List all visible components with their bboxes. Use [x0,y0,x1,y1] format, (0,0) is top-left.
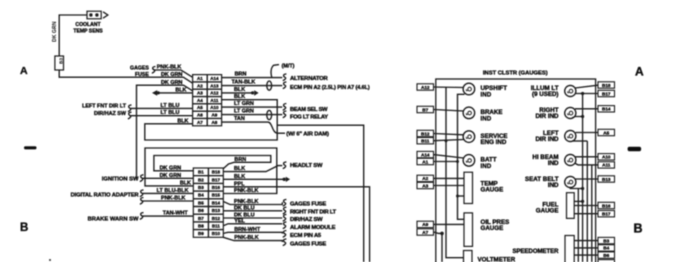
wire LT GRN from A9 to fog lt relay [222,114,283,116]
label FUEL GAUGE [536,201,559,214]
page marker dash (left) [24,146,37,149]
svg-text:B: B [634,222,643,236]
wire A3 tab to temp gauge [434,185,465,187]
wire DK BLU from B12 to dir/haz sw [223,217,282,219]
connector B pin grid (B1-B18) [193,168,223,237]
wire seat belt lamp to B13 tab [576,178,599,180]
svg-text:TAN: TAN [234,116,245,122]
svg-text:B12: B12 [212,216,221,221]
svg-text:(W/ 6" AIR DAM): (W/ 6" AIR DAM) [286,132,329,138]
svg-text:COOLANT: COOLANT [75,22,101,28]
wire BRN loop from B18 to B1 [154,156,271,171]
svg-text:B: B [20,222,28,234]
svg-text:LT BLU-BLK: LT BLU-BLK [157,188,189,194]
svg-text:B6: B6 [603,253,609,258]
svg-text:B11: B11 [421,139,430,144]
splice arrow (right) at B17 BLK wire [283,177,291,182]
wire A7 continues down off page [441,233,443,262]
svg-text:IND: IND [481,91,492,98]
indicator lamp HI BEAM IND [565,154,576,165]
svg-text:B12: B12 [421,131,430,136]
svg-text:B2: B2 [198,177,204,182]
svg-text:A5: A5 [197,105,203,110]
svg-text:A9: A9 [422,222,428,227]
svg-text:A11: A11 [602,163,611,168]
svg-text:BLK: BLK [175,87,186,93]
connector hook ecm pin a5 [283,231,287,238]
wire right dir lamp to B14 tab [575,108,598,110]
label ILLUM LT (9 USED) [531,85,559,98]
internal bus v2 from upshift lamp down to oil pres gauge [458,94,465,219]
wire speedometer to B4 tab [574,247,598,249]
inst clstr left tab A1 [417,158,434,164]
svg-text:A13: A13 [210,83,219,88]
wire A9 tab to oil pres gauge [434,223,465,225]
svg-text:B16: B16 [212,185,221,190]
inline connector oval on A9 wire [267,110,272,119]
splice arrow (right-pointing) on A12 BLK wire [251,90,259,96]
wire DK GRN from coolant sensor [59,15,87,56]
svg-text:B16: B16 [602,203,611,208]
wire TAN-BLK from A13 to ECM [222,85,283,87]
wire A2 tab to temp gauge [434,177,465,179]
svg-text:PNK-BLK: PNK-BLK [157,65,182,71]
wire illum lamp to B17 tab [576,93,599,95]
inline connector oval on TAN-BLK wire [267,81,272,90]
wire left dir lamp lower to v-bus 3 [572,140,587,142]
internal v-bus right 2 [582,94,584,262]
connector hook beam sel sw [283,104,287,111]
svg-text:A9: A9 [212,113,218,118]
svg-text:BLK: BLK [177,118,188,124]
inst clstr right tab B3 [598,237,615,243]
svg-text:IGNITION SW: IGNITION SW [102,176,139,182]
inst clstr right tab A11 [598,162,615,168]
junction dot right dir/v-bus [581,115,584,118]
svg-text:YEL: YEL [234,218,245,224]
svg-text:A1: A1 [422,159,428,164]
connector hook ignition sw [140,175,144,182]
wire TAN from A8 to air dam note [222,122,285,133]
junction dot illum/v-bus [581,92,584,95]
svg-text:BEAM SEL SW: BEAM SEL SW [290,107,328,113]
wire illum lamp to B18 tab [575,85,598,88]
svg-text:A7: A7 [197,120,203,125]
label BRAKE IND [481,109,503,122]
connector hook dir/haz sw [128,112,132,119]
wire BRN-WHT from B10 to ECM pin A5 [223,232,282,233]
inst clstr box [436,79,596,262]
wire v2 branch to temp gauge [458,195,465,197]
temp gauge [464,172,473,203]
inline connector B3 [55,56,65,70]
voltmeter gauge [464,251,473,262]
svg-text:DIR IND: DIR IND [535,136,559,143]
svg-text:A7: A7 [422,230,428,235]
wire A7 tab to junction [434,232,443,233]
wire PNK-BLK to pin A1 [154,70,193,77]
junction dot B11/v1 [445,139,448,142]
svg-text:A8: A8 [212,120,218,125]
svg-text:B3: B3 [198,185,204,190]
connector A pin grid (A1-A14) [193,75,222,126]
label GAGES FUSE (upper) [130,65,149,78]
label TEMP GAUGE [481,180,504,193]
label HI BEAM IND [532,154,559,167]
svg-text:SPEEDOMETER: SPEEDOMETER [512,249,559,255]
wire left dir lamp to A5 tab [576,132,599,134]
inst clstr left tab B11 [417,138,434,144]
inst clstr right tab B17 [598,90,615,96]
label SERVICE ENG IND [481,133,508,146]
svg-text:A1: A1 [197,76,203,81]
internal v-bus right 1 [577,189,579,262]
wire PNK-BLK to pin B5 [142,200,194,202]
svg-text:ALARM MODULE: ALARM MODULE [290,225,336,231]
wire PPL from B16 to lower page [223,187,369,262]
svg-text:A2: A2 [422,176,428,181]
connector hook right fnt dir lt [283,207,287,214]
svg-text:PNK-BLK: PNK-BLK [234,188,259,194]
indicator lamp BRAKE IND [463,107,475,119]
svg-text:HEADLT SW: HEADLT SW [290,163,323,169]
label SEAT BELT IND [525,176,559,189]
wire TAN-WHT to pin B7 [142,215,194,217]
svg-text:B11: B11 [212,223,221,228]
inst clstr left tab A12 [417,84,434,90]
indicator lamp LEFT DIR IND [565,130,576,141]
svg-text:A12: A12 [210,91,219,96]
svg-text:DK GRN: DK GRN [160,173,182,179]
svg-text:B1: B1 [198,170,204,175]
svg-text:DK BLU: DK BLU [234,205,255,211]
wire DK BLU from B13 to right fnt dir lt [223,210,282,212]
svg-text:A12: A12 [421,85,430,90]
svg-text:B18: B18 [212,170,221,175]
wire DK GRN from ignition sw up to pin A3 [137,85,193,178]
connector hook ECM [283,82,287,89]
connector hook dir/haz sw (right) [283,214,287,221]
internal v-bus right 4 [591,165,593,262]
svg-text:PPL: PPL [234,181,245,187]
junction dot fuel/v-bus [581,200,584,203]
page marker dash (right) [628,147,642,151]
svg-text:BLK: BLK [180,180,191,186]
scan artifact dot [49,259,51,261]
wire BLK from A12 with splice arrow [222,92,252,94]
connector hook headlt sw [283,162,287,169]
svg-text:LEFT FNT DIR LT: LEFT FNT DIR LT [82,103,127,109]
svg-text:B3: B3 [59,58,65,64]
wire hi beam lamp to A11 tab [575,163,599,165]
svg-text:BLK: BLK [234,174,245,180]
svg-text:DK GRN: DK GRN [161,72,183,78]
svg-text:LT GRN: LT GRN [234,101,254,107]
wire BLK from B18 to headlt sw [223,166,282,172]
inst clstr right tab B4 [598,245,615,251]
svg-text:DK GRN: DK GRN [161,80,183,86]
wire LT BLU to pin A5 [130,107,193,109]
splice arrow (left-pointing) on BLK wire [152,90,160,96]
svg-text:BRN-WHT: BRN-WHT [234,227,261,233]
svg-text:B10: B10 [212,231,221,236]
indicator lamp RIGHT DIR IND [565,107,576,118]
junction dot v2/temp [456,195,459,198]
inst clstr right tab B5 (cut off) [598,260,615,262]
wire LT GRN from A10 to beam sel sw [222,106,283,108]
svg-text:(9 USED): (9 USED) [532,91,558,98]
wire LT BLU-BLK to pin B4 [142,192,194,194]
svg-text:A14: A14 [421,152,430,157]
inst clstr left tab A14 [417,151,434,157]
speedometer [565,236,574,262]
svg-text:B18: B18 [602,83,611,88]
svg-text:A4: A4 [197,98,203,103]
svg-text:B4: B4 [603,246,609,251]
svg-text:RIGHT FNT DIR LT: RIGHT FNT DIR LT [290,209,337,215]
oil pres gauge [464,213,473,247]
wire speedometer to B6 tab [574,254,598,256]
label RIGHT DIR IND [535,107,559,120]
svg-text:BLK: BLK [234,94,245,100]
inst clstr left tab A2 [417,175,434,181]
svg-text:DK GRN: DK GRN [160,166,182,172]
svg-text:A3: A3 [197,91,203,96]
svg-text:A6: A6 [197,113,203,118]
svg-text:BLK: BLK [234,166,245,172]
wire BRN from A14 to alternator [222,77,283,79]
svg-text:A: A [635,65,644,79]
svg-text:ALTERNATOR: ALTERNATOR [290,76,329,82]
wire PNK-BLK from B10 bottom to gages fuse [223,237,282,242]
svg-text:DIR/HAZ SW: DIR/HAZ SW [290,217,323,223]
svg-text:PNK-BLK: PNK-BLK [234,235,259,241]
wire speedometer to B3 tab [574,240,598,242]
wire BLK from B17 with splice arrow [223,178,283,180]
label UPSHIFT IND [481,85,508,98]
wire BLK loop from B3 to B15 [145,148,277,194]
svg-text:DK GRN: DK GRN [52,21,58,42]
wire hi beam lamp to A10 tab [575,156,598,158]
indicator lamp BATT IND [463,155,475,167]
coolant temp sensor [87,11,101,19]
inst clstr left tab B7 [417,106,434,112]
svg-text:INST CLSTR (GAUGES): INST CLSTR (GAUGES) [483,71,548,77]
svg-text:B4: B4 [198,193,204,198]
wire seat belt lamp to v-bus [570,187,582,190]
connector hook at gages fuse [152,67,156,74]
wire fuel gauge to B16 tab [574,205,598,207]
indicator lamp SERVICE ENG IND [463,131,475,143]
svg-text:B8: B8 [198,223,204,228]
svg-text:B13: B13 [602,177,611,182]
indicator lamp UPSHIFT IND [463,83,475,95]
inst clstr right tab B16 [598,202,615,208]
connector hook alarm module [283,222,287,229]
connector hook digital ratio adapter (2 wires) [140,190,144,197]
connector hook left fnt dir lt [128,105,132,112]
label LEFT DIR IND [535,130,559,143]
coolant temp sensor connector chevron [103,12,108,18]
svg-text:A5: A5 [603,130,609,135]
connector hook gages fuse (bottom) [283,239,287,246]
svg-text:A10: A10 [210,105,219,110]
svg-text:B13: B13 [212,208,221,213]
svg-text:GAGES FUSE: GAGES FUSE [290,241,326,247]
wire fuel gauge to v-bus [574,200,582,202]
svg-text:BLK: BLK [234,87,245,93]
svg-text:LT BLU: LT BLU [161,110,180,116]
svg-text:BRN: BRN [234,157,246,163]
svg-text:DIR/HAZ SW: DIR/HAZ SW [94,111,127,117]
connector hook fog lt relay [283,111,287,118]
indicator lamp SEAT BELT IND [565,176,576,187]
junction dot seat belt/v-bus [581,187,584,190]
inst clstr right tab A5 [598,129,615,135]
svg-text:ECM PIN A2 (2.5L) PIN A7 (4.6L: ECM PIN A2 (2.5L) PIN A7 (4.6L) [290,85,370,91]
wire A14 tab to batt lamp [434,155,464,158]
inst clstr right tab B17 [598,211,615,217]
wire A1 tab to v2 [434,161,458,163]
label BATT IND [481,157,497,170]
wire B12 tab to service eng lamp [434,134,464,135]
wire BLK branch to lower page [277,125,364,262]
inst clstr right tab B14 [598,106,615,112]
svg-text:A14: A14 [210,76,219,81]
label OIL PRES GAUGE [481,219,510,232]
svg-text:A10: A10 [602,155,611,160]
inst clstr right tab B18 [598,82,615,88]
svg-text:LT GRN: LT GRN [234,109,254,115]
svg-text:IND: IND [548,182,559,189]
svg-text:VOLTMETER: VOLTMETER [478,256,516,262]
svg-text:A: A [20,65,28,77]
wire BLK to pin A3 [158,92,192,94]
wire YEL from B11 to alarm module [223,224,282,226]
svg-text:B9: B9 [198,231,204,236]
svg-text:DIR IND: DIR IND [535,113,559,120]
svg-text:B3: B3 [603,238,609,243]
svg-text:B17: B17 [602,91,611,96]
wire PNK-BLK from B14 to gages fuse [223,202,282,205]
connector hook brake warn sw [140,213,144,220]
fuel gauge [567,193,575,219]
svg-text:B5: B5 [198,200,204,205]
svg-text:B15: B15 [212,193,221,198]
svg-text:IND: IND [548,160,559,167]
svg-text:B17: B17 [602,212,611,217]
svg-text:LT BLU: LT BLU [161,103,180,109]
wire LT BLU to pin A6 [130,115,193,117]
svg-text:ECM PIN A5: ECM PIN A5 [290,233,322,239]
svg-text:IND: IND [481,115,492,122]
svg-text:ENG IND: ENG IND [481,139,507,146]
inst clstr right tab A10 [598,154,615,160]
svg-text:FOG LT RELAY: FOG LT RELAY [290,115,328,121]
svg-text:(M/T): (M/T) [282,64,295,70]
svg-text:IND: IND [481,163,492,170]
inst clstr left tab A3 [417,182,434,188]
svg-text:GAGES: GAGES [130,65,149,71]
svg-text:B6: B6 [198,208,204,213]
svg-text:B14: B14 [212,200,221,205]
inst clstr left tab B12 [417,130,434,136]
svg-text:A11: A11 [210,98,219,103]
connector hook gages fuse (B14) [283,199,287,206]
svg-text:GAUGE: GAUGE [481,225,504,232]
indicator lamp ILLUM LT (9 USED) [565,85,576,96]
wire A12 tab to upshift lamp [434,86,464,89]
svg-text:BRAKE WARN SW: BRAKE WARN SW [88,217,139,223]
connector hook alternator [283,74,287,81]
internal bus v1 down to voltmeter [446,87,464,258]
wire BLK loop from pin A7 around grid to pin A11 [145,100,277,140]
internal v-bus right 3 [586,141,588,262]
svg-text:B7: B7 [198,216,204,221]
wire fuel gauge to B17 tab [574,213,598,215]
wire B7 tab to brake lamp [434,110,464,112]
inst clstr left tab A9 [417,221,434,227]
svg-text:FUSE: FUSE [135,72,149,78]
wire DK GRN from B3 to pin A2 [59,70,192,83]
svg-text:PNK-BLK: PNK-BLK [161,196,186,202]
svg-text:A3: A3 [422,183,428,188]
svg-text:TAN-WHT: TAN-WHT [163,211,189,217]
junction dot A1/v2 [456,160,459,163]
svg-text:PNK-BLK: PNK-BLK [234,199,259,205]
inst clstr left tab A7 [417,229,434,235]
wire right dir lamp lower to v-bus [572,117,583,119]
svg-text:TAN-BLK: TAN-BLK [232,79,256,85]
svg-text:BRN: BRN [235,71,247,77]
svg-text:GAUGE: GAUGE [536,208,559,215]
svg-text:B14: B14 [602,107,611,112]
svg-text:A2: A2 [197,83,203,88]
svg-text:GAGES FUSE: GAGES FUSE [290,201,326,207]
junction dot A7 [440,232,444,236]
svg-text:DIGITAL RATIO ADAPTER: DIGITAL RATIO ADAPTER [71,193,139,199]
svg-text:B7: B7 [422,107,428,112]
svg-text:TEMP SENS: TEMP SENS [73,28,103,34]
wire DK GRN to pin B2 [142,177,194,179]
inst clstr right tab B6 [598,252,615,258]
wire B11 tab to service lamp lower [434,140,464,141]
(M/T) branch curve [271,65,279,78]
svg-text:B17: B17 [212,177,221,182]
inst clstr right tab B13 [598,176,615,182]
svg-text:GAUGE: GAUGE [481,187,504,194]
coolant temp sensor label [73,22,103,34]
